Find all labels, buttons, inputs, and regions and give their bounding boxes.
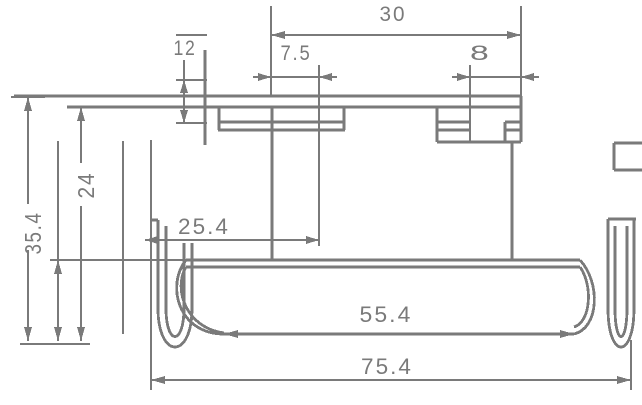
svg-text:24: 24	[73, 172, 99, 199]
dim 12 tick upper	[176, 34, 207, 36]
wire right step vertical at 505	[504, 122, 507, 142]
hook right outer wall inner line	[614, 226, 617, 308]
arrowhead 55.4 left	[224, 330, 238, 338]
wire deck left lip vertical	[204, 50, 207, 145]
arrowhead 30 right	[507, 31, 521, 39]
wire right tongue left cap	[613, 143, 616, 170]
dim 8 left extension	[469, 65, 471, 142]
dim 8 line	[452, 76, 539, 78]
arrowhead 35.4 top	[24, 97, 32, 111]
arrowhead 35.4 bottom	[24, 327, 32, 341]
svg-text:30: 30	[380, 3, 407, 26]
hook right outer lip	[608, 218, 636, 221]
dim 7.5 line	[253, 76, 337, 78]
wire right tongue bottom line	[614, 169, 642, 172]
dim 35.4 top tick	[11, 96, 45, 98]
dims bottom shared tick	[20, 343, 90, 345]
arrowhead 24 bottom	[77, 327, 85, 341]
dim 24 vertical line	[80, 107, 82, 341]
wire base left end inner curve	[181, 267, 224, 333]
arrowhead 8 right	[521, 73, 534, 81]
svg-text:7.5: 7.5	[281, 42, 312, 65]
dim 12 tick top	[176, 79, 207, 81]
arrowhead 24 top	[77, 107, 85, 121]
wire base top outer line	[186, 259, 580, 262]
hook left outer wall	[157, 220, 160, 308]
hook left cup inner arc	[166, 308, 184, 337]
wire base right end outer curve	[574, 260, 594, 334]
wire deck top surface with left extension	[14, 95, 521, 98]
hook left cup outer arc	[158, 308, 192, 347]
hook right cup outer arc	[608, 308, 634, 347]
dim 30 line	[271, 34, 521, 36]
hook left outer wall inner line	[165, 226, 168, 308]
wire flange bottom line	[218, 129, 345, 132]
arrowhead 75.4 right	[617, 376, 631, 384]
wire deck right edge cap	[520, 96, 523, 142]
wire flange left cap	[218, 107, 221, 130]
arrowhead 7.5 left	[258, 73, 271, 81]
wire right step bottom line	[437, 141, 521, 144]
dim 12 tick bottom	[176, 122, 207, 124]
arrowhead 75.4 left	[151, 376, 165, 384]
svg-text:35.4: 35.4	[20, 212, 46, 255]
wire right step lower lines	[437, 129, 521, 132]
arrowhead U2 bottom	[54, 327, 62, 341]
dim 12 vertical line	[183, 60, 185, 123]
hook left inner wall lines	[184, 243, 192, 308]
dim 75.4 right extension	[630, 340, 632, 390]
arrowhead U2 top	[54, 260, 62, 274]
wire base right end inner curve	[574, 267, 588, 327]
wire right tongue top line	[614, 142, 642, 145]
dim U2 top extension	[50, 259, 186, 261]
wire flange mid line	[218, 121, 345, 124]
dim 30 right extension	[520, 6, 522, 96]
arrowhead 25.4 right	[306, 236, 319, 244]
arrowhead 7.5 right	[319, 73, 332, 81]
arrowhead 30 left	[271, 31, 285, 39]
hook right outer wall	[607, 219, 610, 308]
svg-text:8: 8	[470, 42, 492, 65]
dim 25.4 line	[145, 239, 319, 241]
arrowhead 12 bottom	[180, 110, 188, 123]
wire right step mid lines	[437, 121, 521, 124]
hook right cup inner arc	[615, 308, 627, 337]
wire right step vertical at 437	[436, 107, 439, 142]
arrowhead 12 top	[180, 80, 188, 93]
dim 35.4 vertical line	[27, 97, 29, 341]
svg-text:25.4: 25.4	[178, 214, 230, 239]
dim 7.5 right extension	[318, 65, 320, 246]
svg-text:55.4: 55.4	[360, 302, 413, 327]
wire flange right cap	[343, 107, 346, 130]
dim U2 vertical line	[57, 141, 59, 341]
dim 75.4 line	[151, 379, 631, 381]
hook left outer lip	[151, 219, 158, 222]
arrowhead 8 left	[457, 73, 470, 81]
dim 30 left extension	[270, 6, 272, 96]
svg-text:75.4: 75.4	[361, 354, 413, 379]
wire tower right wall	[511, 142, 514, 260]
hook right inner wall lines	[627, 219, 634, 308]
svg-text:12: 12	[174, 37, 197, 60]
wire deck bottom surface with left extension	[67, 106, 521, 109]
wire base bottom line	[224, 333, 574, 336]
wire base top inner line	[186, 266, 580, 269]
arrowhead 25.4 left	[145, 236, 158, 244]
mystery vertical U1	[122, 141, 124, 334]
wire tower left wall	[271, 107, 274, 260]
wire base left end outer curve	[177, 260, 224, 334]
dim 75.4 left extension	[150, 140, 152, 390]
arrowhead 55.4 right	[560, 330, 574, 338]
